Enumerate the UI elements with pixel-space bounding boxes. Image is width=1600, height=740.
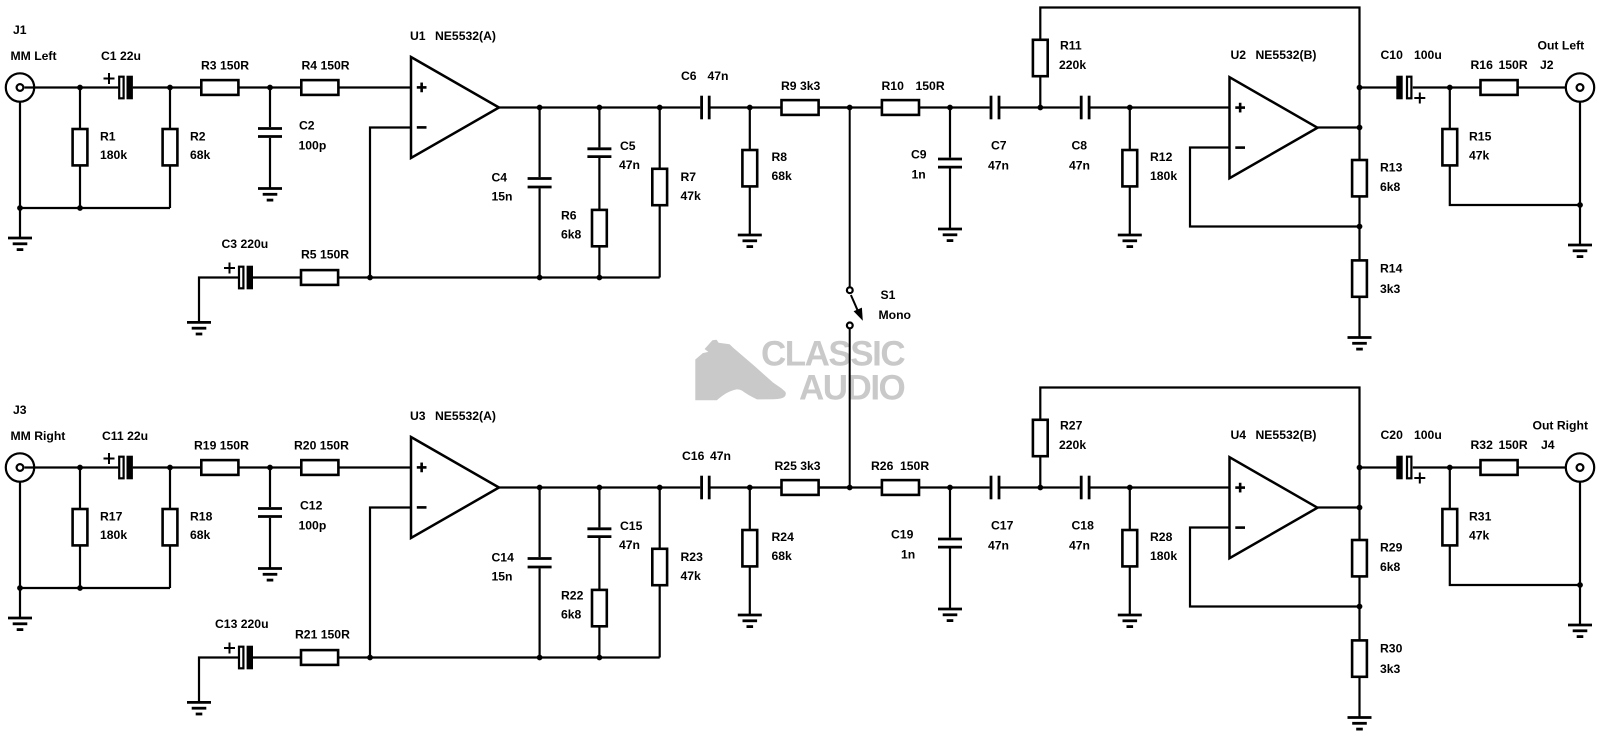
value label R6 (561, 228, 582, 242)
svg-text:15n: 15n (492, 570, 513, 584)
label S1 (881, 288, 896, 302)
svg-text:R21 150R: R21 150R (295, 628, 350, 642)
svg-text:100p: 100p (299, 139, 327, 153)
junction (77, 205, 83, 211)
wire (338, 656, 660, 658)
resistor R2 (163, 129, 178, 165)
svg-text:R16: R16 (1471, 58, 1494, 72)
label R12 (1150, 150, 1173, 164)
resistor R24 (742, 530, 757, 566)
op-amp U2 (1230, 77, 1318, 178)
wire (1450, 165, 1580, 205)
svg-text:R31: R31 (1469, 510, 1492, 524)
junction (1037, 485, 1043, 491)
resistor R9 (782, 100, 819, 115)
svg-text:U3: U3 (410, 409, 426, 423)
wire (133, 466, 202, 468)
junction (747, 485, 753, 491)
wire (1358, 677, 1360, 718)
svg-text:R24: R24 (772, 530, 795, 544)
svg-text:U4: U4 (1231, 428, 1247, 442)
wire (1129, 566, 1131, 615)
wire (1518, 466, 1576, 468)
junction (1447, 85, 1453, 91)
svg-text:R10: R10 (882, 79, 905, 93)
svg-text:R29: R29 (1380, 541, 1403, 555)
wire (1318, 506, 1360, 508)
capacitor C15 (587, 529, 611, 537)
label R18 (190, 510, 213, 524)
value label R1 (100, 148, 127, 162)
connector J1 (6, 73, 34, 101)
svg-text:R20 150R: R20 150R (294, 439, 349, 453)
svg-text:C1 22u: C1 22u (101, 49, 141, 63)
resistor R5 (301, 270, 338, 285)
junction (947, 485, 953, 491)
wire (659, 585, 661, 657)
svg-text:R15: R15 (1469, 130, 1492, 144)
wire (1413, 466, 1481, 468)
value label R16 (1499, 58, 1528, 72)
wire (709, 106, 850, 108)
watermark text AUDIO (799, 369, 905, 408)
wire (25, 86, 119, 88)
wire (1040, 8, 1359, 161)
junction (167, 85, 173, 91)
svg-text:6k8: 6k8 (561, 608, 582, 622)
wire (79, 165, 81, 208)
label J3 (13, 403, 27, 417)
svg-text:NE5532(B): NE5532(B) (1256, 428, 1317, 442)
resistor R7 (652, 169, 667, 205)
svg-text:R28: R28 (1150, 530, 1173, 544)
wire (1360, 86, 1397, 88)
value label R26 (900, 459, 929, 473)
svg-text:6k8: 6k8 (1380, 560, 1401, 574)
label R10 (882, 79, 905, 93)
label C10 (1381, 48, 1404, 62)
resistor R13 (1352, 160, 1367, 196)
junction (1357, 85, 1363, 91)
label C17 (991, 519, 1014, 533)
value label R8 (772, 169, 793, 183)
part number U4 (1256, 428, 1317, 442)
svg-text:R14: R14 (1380, 262, 1403, 276)
wire (819, 106, 882, 108)
svg-text:47n: 47n (708, 69, 729, 83)
svg-text:47k: 47k (1469, 529, 1490, 543)
wire (25, 466, 119, 468)
junction (77, 85, 83, 91)
label J1 (13, 23, 27, 37)
ground (1118, 615, 1142, 627)
capacitor C9 (938, 159, 962, 167)
value label R2 (190, 148, 211, 162)
label R4 (302, 59, 350, 73)
wire (598, 158, 600, 210)
resistor R8 (742, 150, 757, 186)
label U2 (1231, 48, 1247, 62)
svg-text:180k: 180k (1150, 549, 1177, 563)
svg-text:U1: U1 (410, 29, 426, 43)
junction (1357, 604, 1363, 610)
label R16 (1471, 58, 1494, 72)
wire (1358, 196, 1360, 260)
resistor R20 (301, 460, 338, 475)
svg-text:100p: 100p (299, 519, 327, 533)
svg-text:C20: C20 (1381, 428, 1404, 442)
svg-text:MM Right: MM Right (11, 429, 66, 443)
wire (499, 486, 700, 488)
resistor R19 (201, 460, 238, 475)
resistor R18 (163, 509, 178, 545)
wire (1449, 88, 1451, 130)
wire (1449, 468, 1451, 510)
svg-text:J2: J2 (1540, 58, 1554, 72)
label S1 Mono (879, 308, 912, 322)
capacitor C6 (702, 96, 710, 120)
label C7 (991, 139, 1007, 153)
junction (1037, 105, 1043, 111)
label U1 (410, 29, 426, 43)
wire (338, 276, 660, 278)
junction (1357, 505, 1363, 511)
value label R12 (1150, 169, 1177, 183)
wire (1089, 486, 1229, 488)
svg-text:100u: 100u (1414, 428, 1442, 442)
svg-text:R9 3k3: R9 3k3 (781, 79, 821, 93)
svg-text:C5: C5 (620, 139, 636, 153)
label C4 (492, 171, 508, 185)
ground (1568, 625, 1592, 637)
wire (659, 205, 661, 277)
value label R14 (1380, 282, 1401, 296)
resistor R10 (882, 100, 919, 115)
label R2 (190, 130, 206, 144)
resistor R27 (1033, 420, 1048, 456)
svg-text:150R: 150R (1499, 58, 1528, 72)
ground (258, 189, 282, 201)
svg-text:6k8: 6k8 (561, 228, 582, 242)
capacitor C16 (702, 476, 710, 500)
junction (77, 585, 83, 591)
part number U1 (435, 29, 496, 43)
junction (657, 485, 663, 491)
label R8 (772, 150, 788, 164)
capacitor C12 (258, 509, 282, 517)
watermark logo (695, 340, 786, 401)
svg-text:C17: C17 (991, 519, 1014, 533)
wire (79, 545, 81, 588)
label R20 (294, 439, 349, 453)
label C12 (300, 499, 323, 513)
svg-text:R30: R30 (1380, 642, 1403, 656)
svg-text:R23: R23 (681, 550, 704, 564)
label R24 (772, 530, 795, 544)
label C8 (1072, 139, 1088, 153)
ground (258, 569, 282, 581)
value label C3 (222, 237, 269, 251)
wire (538, 488, 540, 558)
value label R31 (1469, 529, 1490, 543)
capacitor C3 (electrolytic) (224, 263, 253, 290)
label R11 (1060, 39, 1082, 53)
junction (17, 205, 23, 211)
wire (133, 86, 202, 88)
svg-text:R3 150R: R3 150R (201, 59, 249, 73)
label C15 (620, 519, 643, 533)
op-amp U1 (411, 57, 499, 158)
wire (1358, 576, 1360, 640)
svg-text:R18: R18 (190, 510, 213, 524)
wire (1318, 126, 1360, 128)
junction (597, 105, 603, 111)
value label C7 (988, 159, 1009, 173)
wire (659, 108, 661, 169)
wire (79, 88, 81, 130)
svg-text:U2: U2 (1231, 48, 1247, 62)
wire (1358, 297, 1360, 338)
svg-text:47n: 47n (1069, 159, 1090, 173)
label R15 (1469, 130, 1492, 144)
svg-text:1n: 1n (912, 168, 926, 182)
value label R29 (1380, 560, 1401, 574)
svg-text:Out Right: Out Right (1533, 419, 1589, 433)
junction (1357, 125, 1363, 131)
connector J4 (1566, 453, 1594, 481)
value label R13 (1380, 180, 1401, 194)
label R26 (871, 459, 894, 473)
svg-text:47k: 47k (681, 189, 702, 203)
connector J2 (1566, 73, 1594, 101)
svg-text:R13: R13 (1380, 161, 1403, 175)
label C2 (299, 119, 315, 133)
resistor R11 (1033, 40, 1048, 76)
junction (537, 105, 543, 111)
svg-text:47n: 47n (710, 449, 731, 463)
svg-text:6k8: 6k8 (1380, 180, 1401, 194)
junction (947, 105, 953, 111)
part number U3 (435, 409, 496, 423)
label Out Right (1533, 419, 1589, 433)
resistor R31 (1442, 509, 1457, 545)
wire (598, 246, 600, 277)
wire (598, 626, 600, 657)
resistor R4 (301, 80, 338, 95)
wire (1040, 388, 1359, 541)
label C20 (1381, 428, 1404, 442)
svg-text:150R: 150R (916, 79, 945, 93)
label R29 (1380, 541, 1403, 555)
wire (949, 488, 951, 538)
value label R23 (681, 569, 702, 583)
value label R24 (772, 549, 793, 563)
label MM Left (11, 49, 57, 63)
svg-text:C19: C19 (891, 528, 914, 542)
resistor R15 (1442, 129, 1457, 165)
junction (1447, 465, 1453, 471)
value label C17 (988, 539, 1009, 553)
label R30 (1380, 642, 1403, 656)
label R1 (100, 130, 116, 144)
label C16 (682, 449, 705, 463)
svg-text:R8: R8 (772, 150, 788, 164)
connector J3 (6, 453, 34, 481)
value label R11 (1059, 58, 1086, 72)
wire (598, 488, 600, 528)
wire (199, 278, 238, 323)
svg-text:R32: R32 (1471, 438, 1494, 452)
svg-text:3k3: 3k3 (1380, 282, 1401, 296)
value label C16 (710, 449, 731, 463)
wire (269, 138, 271, 189)
svg-text:C4: C4 (492, 171, 508, 185)
capacitor C2 (258, 129, 282, 137)
svg-text:47n: 47n (988, 539, 1009, 553)
svg-text:C18: C18 (1072, 519, 1095, 533)
resistor R12 (1122, 150, 1137, 186)
junction (597, 275, 603, 281)
junction (657, 105, 663, 111)
wire (269, 88, 271, 128)
value label C19 (901, 548, 915, 562)
label R32 (1471, 438, 1494, 452)
wire (709, 486, 850, 488)
wire (338, 466, 411, 468)
junction (267, 85, 273, 91)
wire (538, 108, 540, 178)
label R28 (1150, 530, 1173, 544)
svg-text:AUDIO: AUDIO (799, 369, 905, 408)
svg-text:180k: 180k (1150, 169, 1177, 183)
svg-text:R17: R17 (100, 510, 123, 524)
ground (1118, 235, 1142, 247)
junction (537, 655, 543, 661)
value label C12 (299, 519, 327, 533)
value label R27 (1059, 438, 1086, 452)
svg-text:C9: C9 (911, 148, 927, 162)
wire (1129, 108, 1131, 151)
junction (597, 655, 603, 661)
label R3 (201, 59, 249, 73)
svg-text:220k: 220k (1059, 438, 1086, 452)
label R21 (295, 628, 350, 642)
wire (253, 656, 301, 658)
wire (1360, 466, 1397, 468)
op-amp U4 (1230, 457, 1318, 558)
wire (598, 108, 600, 148)
wire (749, 566, 751, 615)
value label C14 (492, 570, 513, 584)
value label C10 (1414, 48, 1442, 62)
wire (20, 207, 170, 209)
value label C15 (619, 538, 640, 552)
svg-text:C8: C8 (1072, 139, 1088, 153)
label R22 (561, 589, 584, 603)
wire (538, 188, 540, 277)
wire (370, 128, 411, 278)
svg-text:1n: 1n (901, 548, 915, 562)
svg-text:C6: C6 (681, 69, 697, 83)
svg-text:220k: 220k (1059, 58, 1086, 72)
svg-text:MM Left: MM Left (11, 49, 57, 63)
value label R32 (1499, 438, 1528, 452)
wire (169, 88, 171, 130)
value label C1 (101, 49, 141, 63)
value label R30 (1380, 662, 1401, 676)
wire (169, 468, 171, 510)
ground (187, 702, 211, 714)
svg-text:R25 3k3: R25 3k3 (775, 459, 821, 473)
wire (598, 538, 600, 590)
resistor R26 (882, 480, 919, 495)
label R17 (100, 510, 123, 524)
svg-text:47n: 47n (619, 158, 640, 172)
ground (8, 238, 32, 250)
wire (1413, 86, 1481, 88)
capacitor C7 (991, 96, 999, 120)
value label R17 (100, 528, 127, 542)
label J4 (1541, 438, 1555, 452)
ground (1348, 338, 1372, 350)
switch S1 (847, 108, 863, 488)
label U4 (1231, 428, 1247, 442)
svg-text:Mono: Mono (879, 308, 912, 322)
value label C5 (619, 158, 640, 172)
junction (847, 485, 853, 491)
resistor R28 (1122, 530, 1137, 566)
svg-text:C3 220u: C3 220u (222, 237, 269, 251)
capacitor C14 (528, 559, 552, 568)
value label C11 (102, 429, 148, 443)
capacitor C18 (1081, 476, 1089, 500)
ground (1568, 245, 1592, 257)
capacitor C19 (938, 539, 962, 547)
junction (367, 655, 373, 661)
wire (949, 108, 951, 158)
wire (238, 86, 301, 88)
capacitor C1 (electrolytic) (104, 73, 133, 99)
ground (738, 615, 762, 627)
svg-text:15n: 15n (492, 190, 513, 204)
resistor R29 (1352, 540, 1367, 576)
wire (19, 102, 21, 238)
label C6 (681, 69, 697, 83)
wire (1129, 186, 1131, 235)
wire (338, 86, 411, 88)
resistor R25 (782, 480, 819, 495)
wire (79, 468, 81, 510)
ground (938, 229, 962, 241)
label C14 (492, 551, 515, 565)
capacitor C8 (1081, 96, 1089, 120)
wire (169, 165, 171, 208)
svg-text:68k: 68k (190, 148, 211, 162)
wire (370, 508, 411, 658)
label C18 (1072, 519, 1095, 533)
junction (1357, 465, 1363, 471)
wire (919, 106, 990, 108)
wire (1039, 76, 1041, 107)
wire (919, 486, 990, 488)
wire (949, 169, 951, 230)
value label R18 (190, 528, 211, 542)
wire (269, 468, 271, 508)
svg-text:47k: 47k (681, 569, 702, 583)
wire (1190, 148, 1360, 227)
label R7 (681, 170, 697, 184)
svg-text:68k: 68k (772, 169, 793, 183)
